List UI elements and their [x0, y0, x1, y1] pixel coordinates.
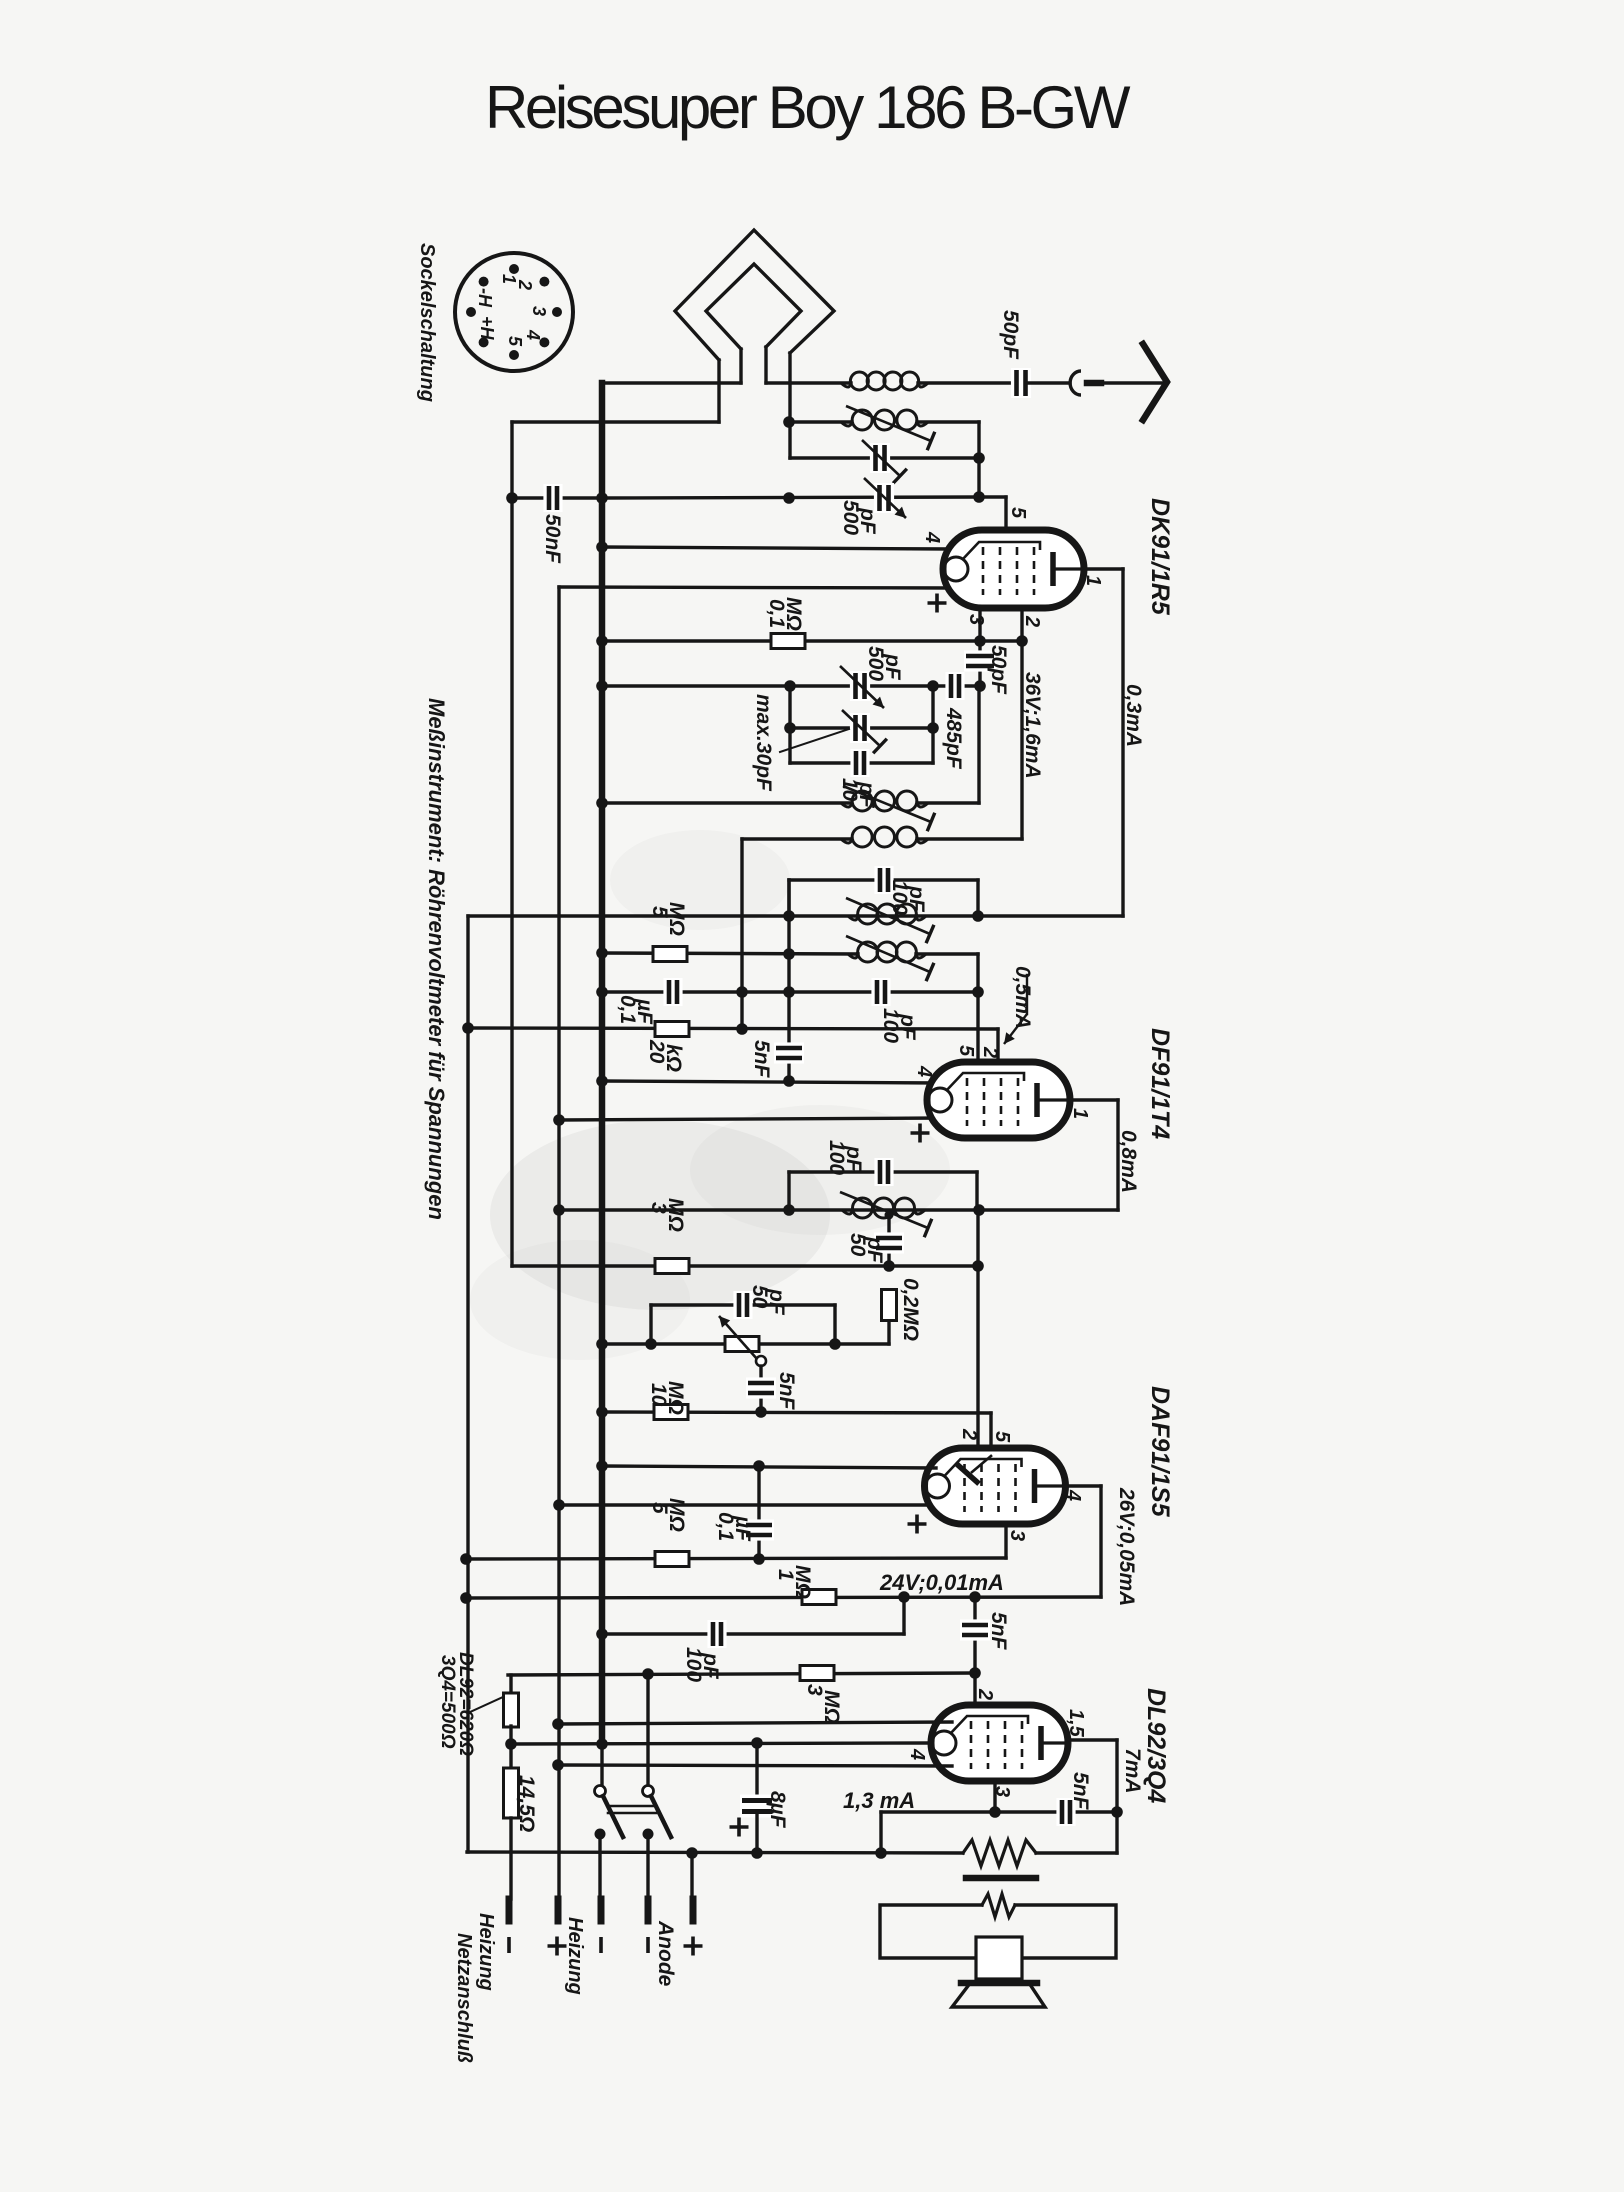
DAF91 pin label 3	[1006, 1530, 1028, 1541]
node junction 978,1266	[972, 1260, 984, 1272]
node junction 978,992	[972, 986, 984, 998]
wire osc feedback vertical x979	[977, 686, 980, 803]
node junction 559,1120	[553, 1114, 565, 1126]
svg-text:0,3mA: 0,3mA	[1122, 684, 1145, 747]
svg-text:4: 4	[913, 1065, 935, 1077]
resistor 5MOhm AGC	[653, 947, 687, 962]
label 0,1MOhm	[765, 597, 805, 631]
capacitor 5nF tone	[1056, 1798, 1075, 1826]
wire pin4 line y1081	[602, 1081, 940, 1083]
coil IF1 secondary L6 variable	[846, 936, 934, 981]
node junction 789,1081	[783, 1075, 795, 1087]
wire DAF91 line y1466	[602, 1466, 936, 1468]
node junction 790,686	[784, 680, 796, 692]
node junction 975,1673	[969, 1667, 981, 1679]
capacitor 5nF grid	[774, 1042, 804, 1063]
label 5nF grid	[750, 1040, 773, 1079]
terminal sign minus 3	[599, 1937, 603, 1953]
DF91 pin label 2	[979, 1046, 1001, 1058]
wire DK91 filament line y587	[559, 587, 949, 588]
node junction 980,641	[974, 635, 986, 647]
capacitor 50pF pin3	[964, 650, 996, 671]
label 1MOhm	[774, 1565, 814, 1599]
node bus 1466	[596, 1460, 608, 1472]
speaker voice coil loop	[880, 1905, 1116, 1958]
wire DAF91 pin drop x978	[976, 1210, 979, 1450]
node junction 757,1853	[751, 1847, 763, 1859]
switch pole left	[595, 1786, 624, 1900]
label 10pF	[838, 778, 878, 809]
wire grid line y1674	[508, 1673, 975, 1675]
wire DL92 line y1724	[558, 1722, 952, 1724]
node junction 1117,1812	[1111, 1806, 1123, 1818]
label DL92/3Q4	[1142, 1688, 1170, 1803]
node junction bus 498	[596, 492, 608, 504]
label 50nF	[541, 514, 564, 564]
label 5nF tone	[1069, 1772, 1092, 1811]
svg-text:4: 4	[921, 531, 943, 543]
node bus 953	[596, 947, 608, 959]
node junction 995,1812	[989, 1806, 1001, 1818]
svg-text:Reisesuper Boy 186 B-GW: Reisesuper Boy 186 B-GW	[485, 74, 1131, 141]
arrow 0,5mA	[1004, 975, 1027, 1044]
label 0,5mA	[1011, 966, 1034, 1029]
wire antenna to coupling coil	[766, 381, 851, 384]
terminal sign plus 5	[684, 1937, 703, 1956]
node junction 789,992	[783, 986, 795, 998]
wire IF2 tap 50pF	[885, 1211, 894, 1267]
coil oscillator L4	[841, 827, 928, 847]
svg-text:pF: pF	[896, 1013, 919, 1041]
wire L3 to x979	[918, 801, 979, 804]
label 26V 0,05mA	[1115, 1487, 1138, 1606]
svg-text:pF: pF	[881, 653, 904, 681]
svg-text:0,2MΩ: 0,2MΩ	[899, 1278, 922, 1341]
node junction 980,686	[974, 680, 986, 692]
DAF91 plus mark	[908, 1515, 927, 1534]
node bus 1634	[596, 1628, 608, 1640]
variable capacitor 500pF tuning	[840, 666, 884, 708]
8uF plus mark	[730, 1818, 749, 1837]
svg-text:5: 5	[505, 336, 525, 347]
svg-text:36V;1,6mA: 36V;1,6mA	[1021, 672, 1044, 779]
label 8uF	[766, 1791, 789, 1829]
svg-text:max.30pF: max.30pF	[752, 694, 775, 792]
svg-text:pF: pF	[765, 1288, 788, 1316]
node bus 686	[596, 680, 608, 692]
node junction 761,1412	[755, 1406, 767, 1418]
resistor 14,5Ohm	[504, 1744, 519, 1818]
DF91 pin label 5	[955, 1045, 977, 1057]
node junction 511,1744	[505, 1738, 517, 1750]
coil IF1 primary L5 variable	[846, 898, 934, 943]
svg-text:Meßinstrument: Röhrenvoltmeter: Meßinstrument: Röhrenvoltmeter für Spann…	[424, 698, 449, 1220]
wire DL92 pin3 drop	[993, 1781, 996, 1812]
svg-text:5nF: 5nF	[1069, 1772, 1092, 1811]
svg-text:Heizung: Heizung	[564, 1917, 586, 1995]
svg-text:Sockelschaltung: Sockelschaltung	[416, 243, 438, 402]
svg-text:5: 5	[1007, 507, 1029, 519]
potentiometer body	[725, 1337, 759, 1352]
wire osc box right	[931, 686, 934, 763]
svg-text:2: 2	[974, 1688, 996, 1700]
svg-text:50pF: 50pF	[987, 645, 1010, 695]
node junction 904,1597	[898, 1591, 910, 1603]
wire IF2 bypass top	[789, 1170, 977, 1173]
svg-text:5: 5	[991, 1431, 1013, 1443]
label Heizung	[564, 1917, 586, 1995]
DK91 pin label 5	[1007, 507, 1029, 519]
wire DK91 pin4 line y547	[602, 547, 949, 549]
socket pin label 5	[505, 336, 525, 347]
socket pin label -H	[475, 288, 495, 308]
label DL92=620 leader	[470, 1697, 503, 1712]
svg-text:3: 3	[1006, 1530, 1028, 1541]
svg-text:3: 3	[529, 306, 549, 316]
speaker baffle bar	[961, 1980, 1037, 1987]
node junction 1022,641	[1016, 635, 1028, 647]
node junction 759,1559	[753, 1553, 765, 1565]
capacitor 5nF coupling	[960, 1619, 990, 1640]
node junction 558,1724	[552, 1718, 564, 1730]
transformer primary winding	[963, 1840, 1036, 1866]
label max30pF	[752, 694, 775, 792]
socket pin label 3	[529, 306, 549, 316]
capacitor 5nF AF	[746, 1377, 776, 1398]
svg-text:2: 2	[958, 1428, 980, 1440]
wire DAF91 anode right	[1066, 1486, 1101, 1597]
resistor 0,1MOhm	[771, 634, 805, 649]
wire DF91 pin2 drop	[996, 1029, 999, 1078]
label 0,3mA	[1122, 684, 1145, 747]
wire osc coil line y803	[602, 801, 851, 804]
DK91 pin label 4	[921, 531, 943, 543]
label DK91/1R5	[1146, 498, 1174, 616]
wire DF91 anode right	[1070, 1100, 1118, 1210]
wire osc coil2 line y839	[742, 837, 851, 840]
node junction 889,1266	[883, 1260, 895, 1272]
wire IF1 bypass right	[976, 880, 979, 916]
wire trimmer row y728	[790, 726, 933, 729]
svg-text:1: 1	[1069, 1108, 1091, 1119]
svg-text:pF: pF	[863, 1236, 886, 1264]
label Heizung Netzanschluss	[453, 1913, 497, 2063]
tube socket circle	[455, 253, 573, 371]
wire IF1 sec right	[916, 954, 978, 1063]
svg-text:5nF: 5nF	[750, 1040, 773, 1079]
svg-text:3Q4=500Ω: 3Q4=500Ω	[437, 1655, 458, 1749]
wire plug to antenna	[1101, 381, 1162, 384]
wire 50pF bridge right	[833, 1305, 836, 1344]
socket pin label 1	[499, 274, 519, 284]
svg-text:MΩ: MΩ	[664, 1381, 687, 1415]
wire 50pF bridge top	[651, 1303, 835, 1306]
label 100pF IF2	[825, 1140, 865, 1175]
wire DK91 pin3 vertical	[978, 608, 981, 686]
node bus 803	[596, 797, 608, 809]
label DL92=620 3Q4=500	[437, 1652, 476, 1756]
node junction 692,1853	[686, 1847, 698, 1859]
wire rail x559	[557, 587, 560, 1899]
svg-text:485pF: 485pF	[942, 707, 965, 770]
capacitor 100pF IF1	[874, 866, 893, 894]
DK91 pin label 1	[1082, 575, 1104, 586]
wire IF2 bypass left	[787, 1172, 790, 1210]
wire main bus x602 thick	[599, 383, 606, 1744]
label 5MOhm AGC	[648, 902, 688, 936]
svg-text:Netzanschluß: Netzanschluß	[453, 1933, 475, 2063]
wire osc box left	[788, 686, 791, 763]
svg-text:4: 4	[523, 329, 543, 340]
wire pin5 DK91	[979, 497, 1006, 548]
label 3MOhm grid	[803, 1684, 843, 1724]
antenna symbol arrow	[1143, 344, 1167, 420]
wire IF1 anode line y916	[468, 914, 1123, 917]
wire tuning line y686	[602, 684, 980, 687]
wire det line y1266	[512, 1264, 978, 1267]
svg-text:1,5: 1,5	[1065, 1709, 1087, 1738]
terminal sign minus 1	[507, 1937, 511, 1953]
title Reisesuper Boy 186 B-GW	[485, 74, 1131, 141]
transformer core	[966, 1875, 1036, 1882]
wire 1M line y1597	[466, 1597, 1101, 1598]
node junction 742,992	[736, 986, 748, 998]
label 0,1uF	[616, 995, 656, 1025]
svg-text:Anode: Anode	[654, 1920, 677, 1987]
node junction 512,498	[506, 492, 518, 504]
wire coil L2 to corner	[918, 422, 979, 497]
DK91 pin label 2	[1021, 615, 1043, 627]
resistor 1MOhm	[802, 1590, 836, 1605]
node junction 558,1765	[552, 1759, 564, 1771]
tube DAF91/1S5	[925, 1448, 1066, 1524]
wire DAF91 pin3 line y1558	[466, 1524, 1006, 1559]
capacitor 50pF IF2 tap	[874, 1232, 904, 1253]
svg-text:Heizung: Heizung	[475, 1913, 497, 1991]
terminal sign minus 4	[646, 1937, 650, 1953]
socket pin label +H	[477, 316, 497, 341]
wire IF2 bypass right	[975, 1172, 978, 1210]
svg-text:MΩ: MΩ	[820, 1690, 843, 1724]
svg-text:DL92=620Ω: DL92=620Ω	[455, 1652, 476, 1756]
node junction 742,1029	[736, 1023, 748, 1035]
coil oscillator L3 variable	[841, 786, 935, 831]
svg-text:14,5Ω: 14,5Ω	[515, 1775, 538, 1832]
socket pin label 2	[515, 279, 535, 290]
svg-text:2: 2	[1021, 615, 1043, 627]
wire DAF91 grid drop x991	[989, 1413, 992, 1462]
tube DF91/1T4	[927, 1062, 1070, 1138]
svg-text:+H: +H	[477, 316, 497, 341]
svg-text:5: 5	[955, 1045, 977, 1057]
label DAF91/1S5	[1146, 1386, 1174, 1518]
DL92 pin label 3	[991, 1786, 1013, 1797]
wire 50nF row y498 right	[602, 497, 979, 498]
wire trimmer row y458	[790, 456, 979, 459]
node bus 992	[596, 986, 608, 998]
wire 10pF row y763	[790, 761, 933, 764]
node junction 979,497	[973, 491, 985, 503]
capacitor 485pF	[945, 672, 964, 700]
label 100pF IF1	[888, 880, 928, 915]
antenna plug socket symbol	[1070, 371, 1101, 395]
wire IF1 bypass left	[787, 880, 790, 916]
capacitor 8uF electrolytic	[740, 1743, 774, 1853]
node junction 757,1743	[751, 1737, 763, 1749]
node junction 933,728	[927, 722, 939, 734]
wire bus lower to switch	[600, 1744, 603, 1786]
wire y422 right to var coil	[789, 420, 851, 423]
wire measurement rail x468	[466, 916, 469, 1852]
node junction 559,1210	[553, 1204, 565, 1216]
label 7mA	[1121, 1748, 1144, 1794]
node bus 547	[596, 541, 608, 553]
label 50pF antenna	[999, 310, 1022, 360]
node junction 789,954	[783, 948, 795, 960]
node junction 789,1210	[783, 1204, 795, 1216]
capacitor 100pF AF	[707, 1620, 726, 1648]
node junction 978,916	[972, 910, 984, 922]
terminal sign plus 2	[548, 1937, 567, 1956]
node junction 468,1028	[462, 1022, 474, 1034]
DL92 pin label 2	[974, 1688, 996, 1700]
label 50pF pin3	[987, 645, 1010, 695]
svg-text:50nF: 50nF	[541, 514, 564, 564]
coil antenna coupling L1	[841, 372, 928, 390]
node junction 835,1344	[829, 1338, 841, 1350]
loop antenna inner winding	[706, 264, 801, 383]
wire DL92 pin2 drop	[973, 1673, 976, 1720]
label 14,5Ohm	[515, 1775, 538, 1832]
label max30pF leader	[780, 729, 849, 752]
transformer secondary winding	[982, 1894, 1015, 1917]
capacitor 50pF pot bridge	[733, 1291, 752, 1319]
capacitor 0,1uF	[663, 978, 682, 1006]
svg-text:5nF: 5nF	[987, 1612, 1010, 1651]
svg-text:MΩ: MΩ	[665, 902, 688, 936]
label 0,1uF 2	[714, 1512, 754, 1542]
label 100pF AF	[682, 1647, 722, 1682]
capacitor 100pF grid	[871, 978, 890, 1006]
wire grid block line y992	[602, 990, 978, 993]
coil antenna tuning L2 variable	[841, 406, 935, 450]
svg-text:24V;0,01mA: 24V;0,01mA	[879, 1570, 1004, 1595]
svg-text:2: 2	[979, 1046, 1001, 1058]
wire 50nF row y498 left	[512, 496, 602, 499]
wire ground return y1853	[467, 1852, 963, 1853]
label 100pF grid	[879, 1008, 919, 1043]
wire IF2 line y1210	[559, 1208, 1118, 1211]
svg-text:µF: µF	[731, 1515, 754, 1542]
svg-text:DL92/3Q4: DL92/3Q4	[1142, 1688, 1170, 1803]
wire pot line y1344	[602, 1342, 889, 1345]
capacitor 10pF	[850, 749, 869, 777]
wire IF1 sec line y954	[602, 953, 858, 954]
wire 100pF line y1634	[602, 1632, 904, 1635]
svg-text:4: 4	[906, 1748, 928, 1760]
DL92 pin label 1,5	[1065, 1709, 1087, 1738]
node junction 466,1559	[460, 1553, 472, 1565]
label 5MOhm 2	[648, 1498, 688, 1532]
DF91 plus mark	[911, 1124, 930, 1143]
wire grid line y422	[512, 420, 719, 423]
svg-text:µF: µF	[633, 998, 656, 1025]
label 10MOhm	[647, 1381, 687, 1415]
label 485pF	[942, 707, 965, 770]
speaker magnet	[976, 1937, 1022, 1979]
svg-text:pF: pF	[842, 1145, 865, 1173]
node junction 975,1597	[969, 1591, 981, 1603]
svg-text:1,3 mA: 1,3 mA	[843, 1788, 915, 1813]
wire 20k line y1029	[468, 1028, 998, 1029]
node junction 979,458	[973, 452, 985, 464]
label 36V 1,6mA	[1021, 672, 1044, 779]
wire 100pF drop x904	[902, 1597, 905, 1634]
DF91 pin label 1	[1069, 1108, 1091, 1119]
node bus 641	[596, 635, 608, 647]
wire 620 bottom	[509, 1726, 512, 1744]
trimmer capacitor 500pF osc padder	[864, 478, 906, 518]
node junction 881,1853	[875, 1847, 887, 1859]
node junction 789,916	[783, 910, 795, 922]
label 1,3mA	[843, 1788, 915, 1813]
DK91 pin label 3	[965, 614, 987, 625]
socket pin label 4	[523, 329, 543, 340]
svg-text:8µF: 8µF	[766, 1791, 789, 1829]
wire x789 rail	[787, 880, 790, 1081]
node bus 1344	[596, 1338, 608, 1350]
wire DL92 line y1743	[511, 1743, 930, 1744]
resistor 3MOhm grid	[800, 1666, 834, 1681]
tube DK91/1R5	[943, 530, 1084, 608]
DF91 pin label 4	[913, 1065, 935, 1077]
label 50pF pot	[748, 1285, 788, 1316]
wire 50pF bridge left	[649, 1305, 652, 1344]
DL92 pin label 4	[906, 1748, 928, 1760]
wire primary right	[1036, 1851, 1117, 1854]
wire 14,5 to terminal	[509, 1818, 512, 1899]
svg-text:2: 2	[515, 279, 535, 290]
svg-text:0,8mA: 0,8mA	[1117, 1130, 1140, 1193]
svg-text:MΩ: MΩ	[664, 1198, 687, 1232]
node junction 790,728	[784, 722, 796, 734]
wire wiper to 5nF	[759, 1366, 762, 1412]
DAF91 pin label 4	[1062, 1489, 1084, 1501]
wire 0,1M line y641	[602, 639, 1022, 642]
wire IF1 bypass top	[789, 878, 978, 881]
svg-text:kΩ: kΩ	[662, 1044, 685, 1072]
wire 50pF to plug	[1028, 381, 1070, 384]
trimmer capacitor max30pF	[842, 710, 887, 753]
wire AGC rail x512	[510, 422, 513, 1266]
capacitor 50pF antenna	[1011, 368, 1031, 398]
potentiometer wiper	[756, 1356, 766, 1366]
label 500pF tuning	[864, 646, 904, 681]
wire cathode line y1812	[881, 1812, 1117, 1853]
label 20kOhm	[645, 1039, 685, 1072]
label 3MOhm det	[647, 1198, 687, 1232]
node bus 1081	[596, 1075, 608, 1087]
resistor 5MOhm 2	[655, 1552, 689, 1567]
capacitor 0,1uF 2 plates	[744, 1519, 774, 1540]
switch pole right	[643, 1674, 672, 1899]
DAF91 diode plate	[959, 1456, 991, 1482]
capacitor 0,1uF 2	[757, 1466, 760, 1559]
battery terminal stubs	[509, 1899, 693, 1921]
svg-text:3: 3	[965, 614, 987, 625]
label Messinstrument	[424, 698, 449, 1220]
wire DL92 line y1765	[558, 1765, 952, 1766]
